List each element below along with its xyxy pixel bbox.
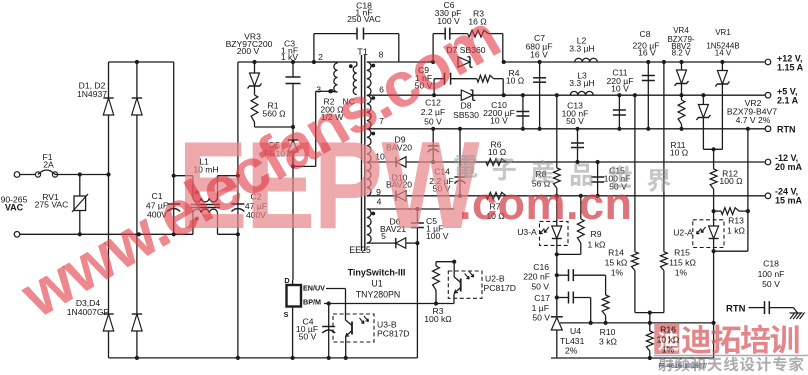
svg-text:C8: C8 — [640, 29, 651, 39]
node RTN output — [765, 126, 771, 132]
capacitor C14 2.2uF 50V — [458, 127, 462, 131]
diode D2 bridge — [136, 62, 138, 98]
wire +5V rail — [473, 94, 766, 96]
zener VR4 BZX79-B8V2 — [679, 60, 683, 64]
wire pin4 node to U2-B — [417, 208, 454, 210]
svg-text:C16: C16 — [533, 262, 549, 272]
resistor R9 1k — [579, 194, 583, 198]
svg-text:1.15 A: 1.15 A — [777, 63, 804, 73]
wire pin 5 — [367, 242, 396, 244]
svg-text:RTN: RTN — [777, 125, 796, 135]
capacitor C5 1uF 100V — [415, 207, 419, 211]
wire AC line 2 — [20, 233, 193, 235]
zener VR1 1N5244B 14V — [720, 60, 724, 64]
wire secondary bottom rail — [551, 357, 714, 359]
wire +12V rail — [504, 61, 766, 63]
node AC input terminal N — [14, 232, 20, 238]
svg-text:EN/UV: EN/UV — [303, 284, 325, 293]
svg-text:20 mA: 20 mA — [775, 162, 803, 172]
diode D8 SB530 — [432, 93, 436, 97]
shunt regulator U4 TL431 2% — [556, 298, 558, 317]
wire bias return — [416, 243, 418, 358]
svg-text:50 V: 50 V — [762, 279, 780, 289]
watermark EEPW big letters — [178, 116, 480, 255]
svg-text:50 V: 50 V — [566, 116, 584, 126]
resistor R11 10 ohm — [678, 100, 685, 124]
resistor R3 100k — [436, 261, 454, 263]
svg-text:1 µF: 1 µF — [532, 303, 549, 313]
wire C2 bottom to B- rail — [237, 234, 239, 358]
transformer T1 core — [361, 55, 363, 251]
wire zener join bar — [703, 148, 722, 150]
svg-text:R13: R13 — [728, 216, 744, 226]
diode D5 FR107 — [292, 127, 294, 140]
svg-text:U2-A: U2-A — [673, 228, 693, 238]
capacitor C4 10uF 50V — [327, 301, 331, 305]
capacitor C10 2200uF 10V — [521, 93, 525, 97]
wire U2-A bottom bar — [714, 250, 748, 252]
svg-text:RTN: RTN — [726, 304, 746, 315]
snubber C6 330pF 100V — [432, 34, 434, 62]
svg-text:R16: R16 — [660, 325, 676, 335]
wire drain node — [291, 164, 295, 168]
svg-text:16 V: 16 V — [530, 49, 548, 59]
zener VR3 BZY97C200 200V — [252, 60, 256, 64]
svg-text:10 V: 10 V — [611, 84, 629, 94]
capacitor C17 1uF 50V — [555, 295, 559, 299]
varistor RV1 275 VAC — [79, 175, 81, 197]
svg-text:2: 2 — [318, 52, 323, 62]
wire primary bottom rail — [109, 357, 418, 359]
svg-text:1%: 1% — [611, 268, 624, 278]
svg-text:4.7 V 2%: 4.7 V 2% — [736, 115, 771, 125]
transformer T1 secondary winding — [367, 62, 371, 196]
capacitor C2 47uF 400V — [237, 176, 239, 235]
diode D9 BAV20 — [396, 157, 406, 167]
node AC input terminal L — [14, 172, 20, 178]
optocoupler U2-B PC817D — [453, 262, 455, 271]
wire filter top rail — [174, 175, 193, 177]
svg-text:3.3 µH: 3.3 µH — [569, 43, 595, 53]
svg-text:PI-4616-101807: PI-4616-101807 — [658, 363, 706, 370]
svg-text:10 Ω: 10 Ω — [488, 147, 507, 157]
svg-text:10 Ω: 10 Ω — [506, 76, 525, 86]
svg-text:2%: 2% — [565, 346, 578, 356]
wire BP/M — [324, 303, 454, 305]
zener VR2 BZX79-B4V7 — [701, 93, 705, 97]
wire U1 drain stub — [292, 280, 294, 285]
svg-text:100 nF: 100 nF — [758, 269, 785, 279]
svg-text:S: S — [284, 310, 289, 319]
watermark ditalogo — [654, 324, 679, 354]
svg-text:R15: R15 — [674, 248, 690, 258]
diode D1 bridge — [108, 62, 110, 98]
svg-text:R14: R14 — [608, 248, 624, 258]
inductor L3 3.3uH — [555, 93, 559, 97]
node -12V output — [765, 159, 771, 165]
svg-text:1%: 1% — [662, 345, 675, 355]
svg-text:200 V: 200 V — [237, 46, 260, 56]
transformer T1 primary winding pins 2-3 — [312, 60, 316, 64]
watermark chinese gray eepw — [454, 155, 477, 178]
svg-text:275 VAC: 275 VAC — [35, 200, 69, 210]
svg-text:D: D — [284, 276, 289, 285]
resistor R1 560 ohm — [251, 95, 258, 122]
svg-text:10 Ω: 10 Ω — [670, 148, 689, 158]
svg-text:10 kΩ: 10 kΩ — [657, 335, 680, 345]
svg-text:50 V: 50 V — [532, 313, 550, 323]
svg-text:R9: R9 — [591, 229, 602, 239]
svg-text:VR1: VR1 — [715, 28, 731, 37]
capacitor C16 220nF 50V — [555, 273, 559, 277]
wire EN/UV — [326, 288, 346, 290]
resistor R12 100 ohm — [713, 149, 715, 169]
svg-text:C18: C18 — [763, 259, 779, 269]
wire divider bar — [635, 312, 664, 314]
svg-text:U2-B: U2-B — [485, 274, 505, 284]
wire pin 7 RTN rail — [367, 128, 766, 130]
resistor R13 1k — [712, 209, 716, 213]
node +5V output — [765, 92, 771, 98]
diode D4 bridge — [132, 314, 142, 331]
svg-text:100 kΩ: 100 kΩ — [424, 314, 452, 324]
svg-text:100 Ω: 100 Ω — [719, 176, 743, 186]
diode D7 SB360 — [431, 60, 435, 64]
capacitor C11 220uF 10V — [617, 93, 621, 97]
capacitor C7 680uF 16V — [538, 60, 542, 64]
resistor R4 10 ohm — [477, 75, 494, 82]
wire U2-A chain down — [713, 251, 715, 358]
wire clamp bottom — [255, 126, 294, 128]
svg-text:1 kV: 1 kV — [281, 52, 298, 62]
svg-text:VR4: VR4 — [673, 26, 689, 35]
wire AC line 1 — [20, 174, 38, 176]
svg-text:14 V: 14 V — [715, 49, 732, 58]
wire drain to U1 — [292, 166, 294, 280]
svg-text:115 kΩ: 115 kΩ — [669, 258, 696, 268]
node +12V output — [765, 59, 771, 65]
wire pin 6 — [367, 94, 462, 96]
svg-text:1 kΩ: 1 kΩ — [588, 240, 606, 250]
resistor R6 10 ohm — [486, 159, 506, 166]
svg-text:R10: R10 — [600, 327, 616, 337]
wire B+ top rail — [109, 61, 174, 63]
optocoupler U3-B PC817D — [333, 314, 374, 342]
svg-text:250 VAC: 250 VAC — [347, 14, 381, 24]
capacitor C18 1nF 250VAC — [313, 34, 315, 62]
wire U1 source — [292, 307, 294, 358]
svg-text:PC817D: PC817D — [377, 329, 409, 339]
svg-text:T1: T1 — [357, 47, 368, 57]
transformer T1 shield winding R2 NC — [356, 62, 358, 66]
wire B+ to clamp and primary — [237, 62, 239, 176]
resistor R7 10 ohm — [486, 192, 506, 199]
capacitor C12 2.2uF 50V — [431, 127, 435, 131]
svg-text:C17: C17 — [534, 293, 550, 303]
svg-text:TL431: TL431 — [560, 336, 585, 346]
svg-text:3.3 µH: 3.3 µH — [569, 78, 595, 88]
diode D10 BAV20 — [396, 191, 406, 201]
wire pin 9 — [367, 195, 396, 197]
svg-text:VAC: VAC — [5, 203, 24, 213]
capacitor C9 1nF 50V — [433, 79, 435, 96]
diode D3 bridge — [103, 314, 113, 331]
capacitor C15 100nF 50V — [596, 160, 600, 164]
svg-text:U1: U1 — [371, 279, 382, 289]
svg-text:220 nF: 220 nF — [523, 272, 550, 282]
svg-text:D8: D8 — [461, 101, 472, 111]
wire AC line 1 to bridge — [55, 174, 109, 176]
resistor R10 3k — [605, 275, 607, 295]
svg-text:TNY280PN: TNY280PN — [356, 290, 401, 300]
svg-text:1N4937: 1N4937 — [77, 89, 107, 99]
svg-text:8.2 V: 8.2 V — [672, 49, 691, 58]
wire pin 10 — [367, 161, 396, 163]
svg-text:TinySwitch-III: TinySwitch-III — [348, 268, 406, 278]
capacitor C8 220uF 16V — [646, 60, 650, 64]
resistor R14 15k 1% — [633, 93, 637, 97]
wire feedback return to RTN — [746, 127, 750, 131]
wire pin 4 — [367, 208, 418, 210]
svg-text:15 mA: 15 mA — [775, 196, 803, 206]
inductor L2 3.3uH — [575, 58, 598, 62]
svg-text:50 V: 50 V — [531, 282, 549, 292]
svg-text:3 kΩ: 3 kΩ — [599, 337, 617, 347]
svg-text:50 V: 50 V — [299, 332, 317, 342]
resistor R8 56 ohm — [556, 95, 558, 168]
ground chassis symbol — [794, 308, 799, 314]
capacitor C3 1nF 1kV — [291, 60, 295, 64]
svg-text:PC817D: PC817D — [484, 283, 516, 293]
svg-text:BP/M: BP/M — [303, 298, 321, 307]
svg-text:2.1 A: 2.1 A — [777, 96, 799, 106]
diode D6 BAV21 — [396, 238, 406, 248]
svg-text:U4: U4 — [570, 326, 581, 336]
svg-text:10 V: 10 V — [490, 116, 508, 126]
capacitor C13 100nF 50V — [575, 127, 579, 131]
resistor R16 10k 1% — [646, 331, 653, 351]
optocoupler U3-A LED — [540, 221, 569, 245]
wire pin 8 — [367, 61, 433, 63]
resistor R16 label overlay — [657, 325, 680, 355]
capacitor C1 47uF 400V — [173, 176, 175, 235]
svg-text:2A: 2A — [43, 160, 54, 170]
resistor R15 115k 1% — [662, 60, 666, 64]
svg-text:1%: 1% — [675, 268, 688, 278]
resistor R3 16 ohm snubber — [468, 30, 489, 37]
svg-text:16 V: 16 V — [638, 47, 656, 57]
optocoupler U2-A LED — [693, 220, 724, 248]
watermark diagonal elecfans — [9, 2, 510, 332]
svg-text:.com.cn: .com.cn — [459, 178, 633, 229]
node -24V output — [765, 193, 771, 199]
svg-text:1 kΩ: 1 kΩ — [727, 226, 745, 236]
svg-text:15 kΩ: 15 kΩ — [605, 258, 628, 268]
IC U1 TNY280PN TinySwitch-III — [287, 285, 302, 307]
fuse F1 2A — [35, 172, 40, 177]
watermark gray slogan — [658, 357, 673, 372]
wire ref line — [562, 322, 714, 324]
